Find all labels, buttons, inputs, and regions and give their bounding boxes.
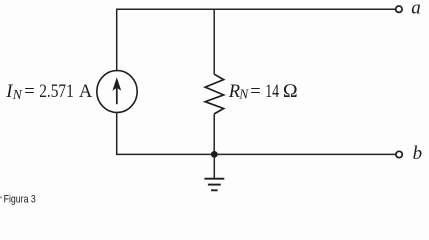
terminal b <box>396 151 402 157</box>
wire left branch lower <box>116 112 118 155</box>
svg-text:=: = <box>250 82 260 102</box>
current source I_N <box>97 71 137 113</box>
svg-text:Figura 3: Figura 3 <box>4 194 36 206</box>
wire resistor branch lower <box>213 114 215 154</box>
svg-text:Ω: Ω <box>283 81 298 102</box>
label I_N = 2.571 A <box>5 82 93 102</box>
svg-text:a: a <box>411 0 421 19</box>
terminal a <box>396 6 402 12</box>
svg-text:b: b <box>413 143 423 164</box>
label R_N = 14 ohm <box>228 81 298 102</box>
resistor R_N <box>205 74 223 114</box>
svg-text:14: 14 <box>265 82 279 102</box>
wire resistor branch upper <box>213 9 215 75</box>
ground <box>204 154 224 190</box>
svg-text:R: R <box>228 82 240 102</box>
svg-text:2.571: 2.571 <box>39 82 74 102</box>
wire top horizontal <box>117 8 396 10</box>
wire left branch upper <box>116 9 118 72</box>
svg-text:A: A <box>79 82 93 102</box>
svg-text:N: N <box>238 87 249 102</box>
svg-text:N: N <box>12 87 23 102</box>
junction dot <box>211 151 218 158</box>
left-edge crop artifact <box>0 197 2 199</box>
svg-text:=: = <box>24 82 34 102</box>
wire bottom horizontal <box>116 153 396 155</box>
